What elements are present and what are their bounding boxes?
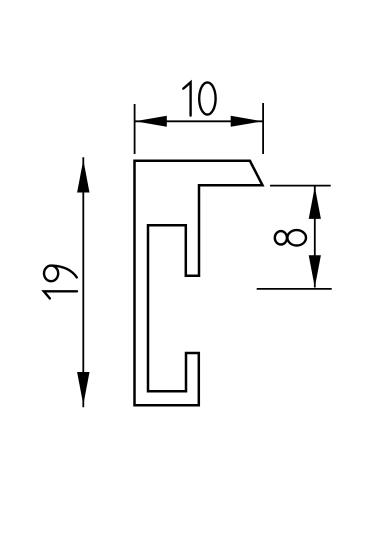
arrowhead top of dimension 19: [77, 160, 89, 193]
dimension line 8: [314, 187, 316, 288]
arrowhead top of dimension 8: [309, 187, 321, 219]
label 8 (rotated): [275, 230, 306, 245]
arrowhead bottom of dimension 8: [309, 255, 321, 287]
arrowhead left of dimension 10: [135, 116, 167, 127]
dimension line 10: [135, 120, 263, 122]
label 10: [183, 82, 215, 115]
dimension line 19: [82, 157, 84, 407]
extension line top of dimension 8: [270, 185, 331, 187]
extension line right of dimension 10: [262, 103, 264, 154]
extension line left of dimension 10: [134, 104, 136, 154]
arrowhead bottom of dimension 19: [77, 372, 89, 405]
label 19 (rotated): [44, 266, 77, 299]
profile cross-section outline: [135, 161, 263, 405]
extension line bottom of dimension 8: [257, 288, 332, 290]
arrowhead right of dimension 10: [231, 116, 263, 127]
